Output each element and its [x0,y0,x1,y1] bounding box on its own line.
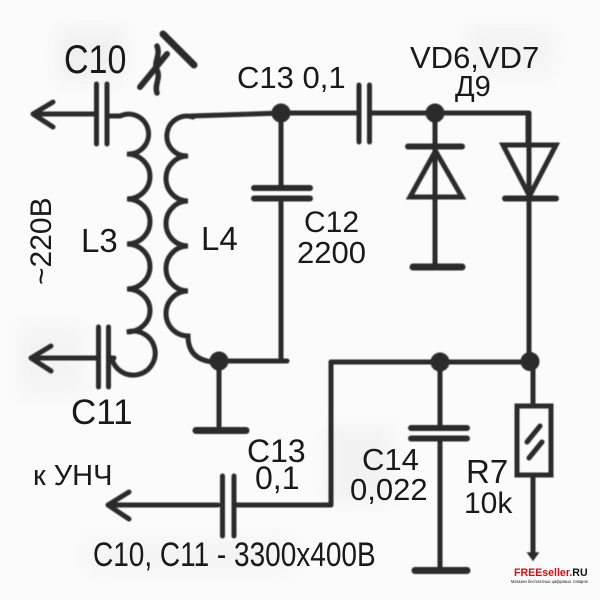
svg-text:C10: C10 [64,36,126,81]
arrow to ~220V line 2 [31,346,51,371]
node: junction C14 [433,355,447,369]
wire: C10 to L3 top [109,114,120,119]
diode VD7 cathode bar [505,196,556,202]
wire: C14 stem [438,362,443,425]
svg-text:~220В: ~220В [25,197,58,285]
svg-text:С13 0,1: С13 0,1 [237,60,346,95]
wire: C13 bottom to corner [237,503,331,508]
wire: C14 to ground [438,442,443,568]
wire: C12 bottom to lower wire [279,202,284,361]
resistor R7 power marks [527,426,542,458]
capacitor C13 bottom plates [223,476,235,536]
wire: R7 top stem [531,362,536,406]
wire: L4 junction down to ground [217,366,222,428]
svg-text:0,1: 0,1 [255,460,299,496]
node: junction top VD6 [428,106,442,120]
svg-text:VD6,VD7: VD6,VD7 [410,40,539,75]
diode VD6 cathode bar [408,144,462,150]
capacitor C11 plates [99,327,109,387]
node: junction top C12 [274,106,288,120]
wire: C11 to L3 bottom [110,356,114,361]
ground under C14 [415,567,467,574]
svg-text:0,022: 0,022 [350,472,428,507]
svg-text:R7: R7 [466,453,508,490]
node: junction R7 [523,355,537,369]
wire: C12 junction stem [279,114,284,185]
svg-text:к УНЧ: к УНЧ [33,460,112,492]
svg-text:2200: 2200 [297,235,366,270]
R7 wire end blob [528,553,538,560]
capacitor C13 top plates [359,85,370,142]
wire: junction through VD6 to ground [433,113,438,264]
arrow to UNCh [108,492,129,519]
svg-text:10k: 10k [464,487,513,520]
inductor L4 (secondary winding) [166,116,214,362]
capacitor C12 plates [254,188,310,199]
ground under VD6 [413,264,462,271]
wire: R7 bottom stem [531,475,536,554]
arrow to ~220V line 1 [33,102,53,127]
capacitor C14 plates [411,428,467,439]
tuning core arrow [140,54,167,87]
svg-text:С10, С11 - 3300х400В: С10, С11 - 3300х400В [93,535,376,573]
svg-text:Д9: Д9 [455,71,491,103]
svg-text:L4: L4 [201,220,238,257]
resistor R7 body [517,406,551,475]
diode VD6 triangle [410,151,462,197]
capacitor C10 [97,84,108,144]
wire: top rail L4 to C13 [191,113,356,116]
inductor L3 (primary winding) [112,114,155,375]
wire: top-left arrow shaft to C10 [35,112,95,117]
diode VD7 triangle [503,145,556,196]
svg-text:FREEseller.RU: FREEseller.RU [514,567,588,579]
svg-text:Магазин бесплатных цифровых то: Магазин бесплатных цифровых товаров [511,579,588,584]
ground under L4 [196,427,246,434]
wire: bottom output arrow shaft [110,503,218,508]
wire: VD7 through-wire down to lower rail [527,113,532,362]
svg-text:L3: L3 [81,222,118,259]
node: junction L4 bottom [212,354,226,368]
wire: C11 arrow shaft [33,356,96,361]
svg-text:С11: С11 [71,393,133,432]
wire: lower rail [331,360,533,365]
wire: C13 to VD junction and corner down to VD7 [372,113,528,145]
wire: L4 bottom junction to C12 stem [217,359,287,364]
wire: lower rail corner down to output [329,362,334,505]
